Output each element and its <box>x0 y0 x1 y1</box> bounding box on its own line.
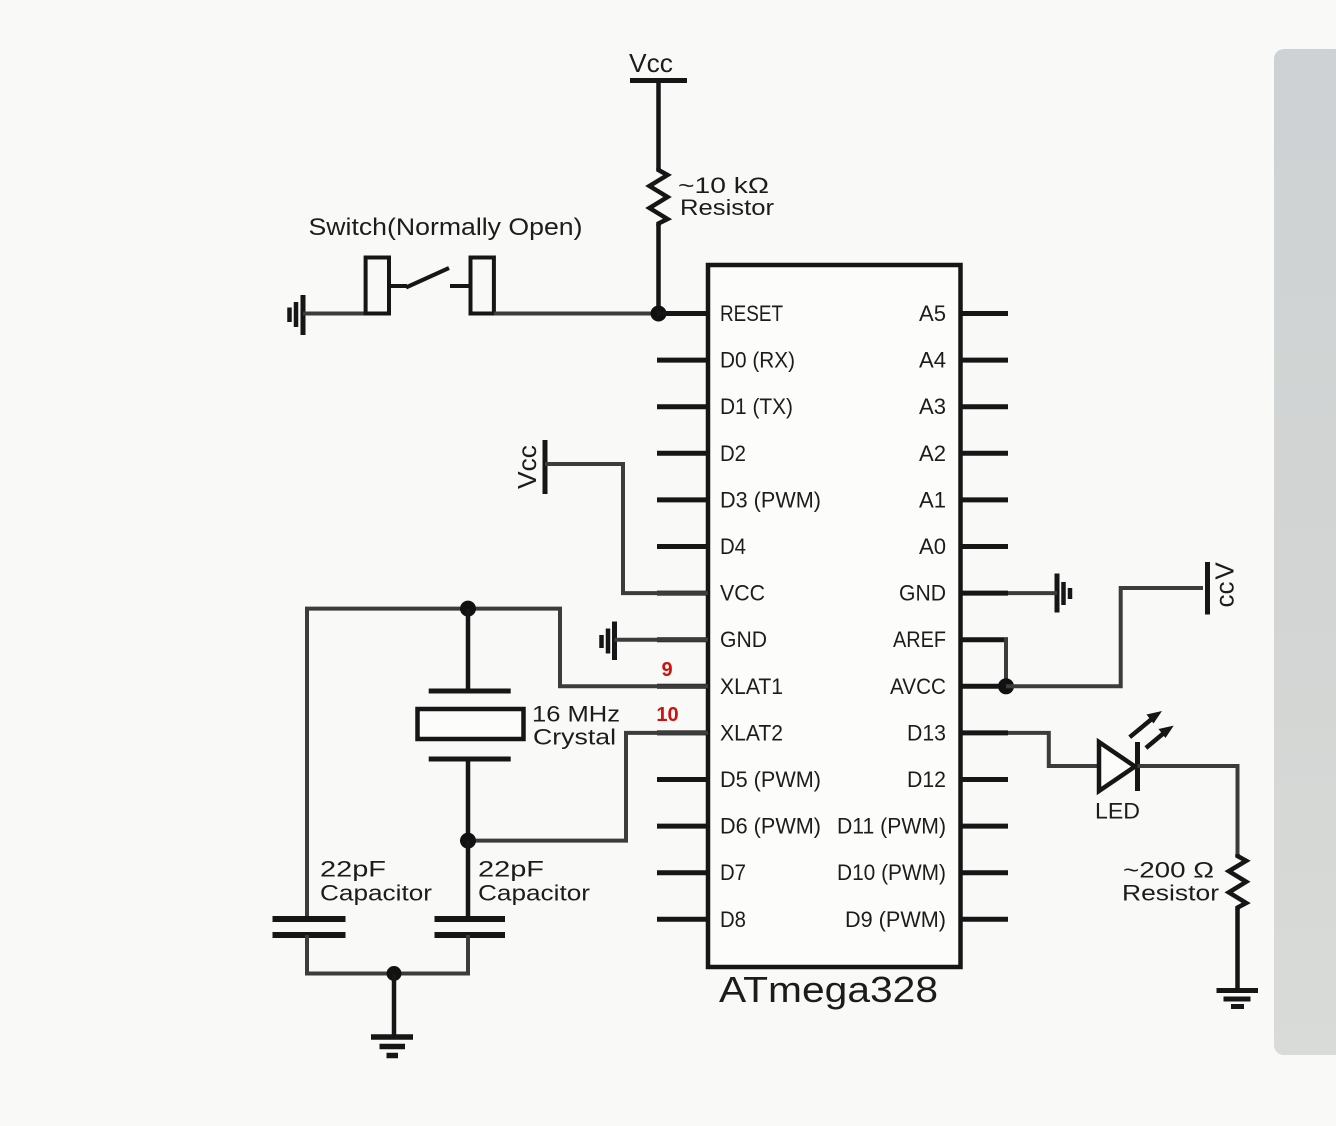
label R1 value ~10 kΩ Resistor <box>678 173 774 220</box>
ground G5 (LED resistor) <box>1217 991 1259 1007</box>
wire C2 to node GND <box>394 935 468 974</box>
resistor R2 <box>1229 854 1246 910</box>
label C2 22pF Capacitor <box>478 857 590 906</box>
pin D6 (PWM) (left 12) <box>657 814 821 839</box>
svg-text:~200 Ω: ~200 Ω <box>1123 858 1214 883</box>
svg-text:D13: D13 <box>907 720 946 745</box>
svg-text:D9 (PWM): D9 (PWM) <box>845 907 946 932</box>
resistor R1 <box>650 168 668 226</box>
pin D4 (left 6) <box>657 534 746 559</box>
svg-text:D0 (RX): D0 (RX) <box>720 348 795 373</box>
wire G2 to GND pin <box>615 638 709 642</box>
pin D13 (right 10) <box>907 720 1008 745</box>
svg-text:22pF: 22pF <box>320 857 386 882</box>
svg-text:A4: A4 <box>919 348 946 373</box>
pin D7 (left 13) <box>657 860 746 885</box>
junction node GND <box>387 966 402 981</box>
junction node AVCC <box>998 678 1014 694</box>
wire C1 to node GND <box>307 935 394 974</box>
svg-text:Crystal: Crystal <box>533 725 616 750</box>
ground G2 (GND pin left) <box>602 622 615 661</box>
svg-text:D11 (PWM): D11 (PWM) <box>837 814 946 839</box>
svg-text:Switch(Normally Open): Switch(Normally Open) <box>309 214 583 241</box>
wire D13 to LED <box>1008 733 1099 766</box>
wire node A to C1 <box>307 609 468 918</box>
svg-text:ATmega328: ATmega328 <box>719 969 938 1010</box>
ground G1 (switch) <box>290 295 304 335</box>
svg-text:D8: D8 <box>720 907 746 932</box>
wire node B to C2 <box>466 841 471 918</box>
pin D8 (left 14) <box>657 907 746 932</box>
junction node B <box>460 833 476 849</box>
svg-text:V: V <box>1210 562 1240 580</box>
junction node RESET <box>651 306 667 322</box>
pin D12 (right 11) <box>907 767 1008 792</box>
wire V1 to R1 <box>656 81 661 171</box>
svg-text:c: c <box>1210 595 1240 608</box>
pin A2 (right 4) <box>919 441 1008 466</box>
wire V2 to VCC pin <box>545 464 708 593</box>
pin D2 (left 4) <box>657 441 746 466</box>
svg-text:Vcc: Vcc <box>629 48 673 78</box>
wire AREF to node AVCC <box>1006 640 1008 687</box>
wire GND pin to G4 <box>1008 591 1057 595</box>
pin A1 (right 5) <box>919 487 1008 512</box>
ground G4 (GND pin right) <box>1057 574 1070 613</box>
pin D1 (TX) (left 3) <box>657 394 793 419</box>
wire node A to crystal Y1 <box>466 609 471 689</box>
svg-text:A3: A3 <box>919 394 946 419</box>
svg-text:Vcc: Vcc <box>512 445 542 489</box>
svg-text:c: c <box>1210 582 1240 595</box>
pin D5 (PWM) (left 11) <box>657 767 821 792</box>
svg-text:D5 (PWM): D5 (PWM) <box>720 767 821 792</box>
capacitor C1 22pF <box>273 919 346 935</box>
power symbol Vcc V1 (top) <box>629 48 687 81</box>
svg-text:AREF: AREF <box>893 627 946 652</box>
pin D10 (PWM) (right 13) <box>837 860 1008 885</box>
svg-text:22pF: 22pF <box>478 857 544 882</box>
LED D1 <box>1099 711 1174 791</box>
pin VCC (left 7) <box>657 581 765 606</box>
svg-text:D6 (PWM): D6 (PWM) <box>720 814 821 839</box>
svg-text:D12: D12 <box>907 767 946 792</box>
svg-text:D1 (TX): D1 (TX) <box>720 394 793 419</box>
pin D3 (PWM) (left 5) <box>657 487 821 512</box>
pin XLAT2 (left 10) <box>657 720 783 745</box>
pin RESET (left 1) <box>657 301 783 326</box>
switch S1 (pushbutton, normally open) <box>366 258 494 314</box>
label R2 value ~200 Ω Resistor <box>1122 858 1219 906</box>
pin AREF (right 8) <box>893 627 1008 652</box>
svg-text:9: 9 <box>661 659 672 681</box>
label Y1 16 MHz Crystal <box>532 702 620 750</box>
svg-text:LED: LED <box>1095 799 1140 824</box>
svg-text:D4: D4 <box>720 534 746 559</box>
wire R2 to G5 <box>1235 908 1240 990</box>
pin D0 (RX) (left 2) <box>657 348 795 373</box>
power symbol Vcc V2 (VCC pin) <box>512 440 545 494</box>
label C1 22pF Capacitor <box>320 857 432 906</box>
pin A0 (right 6) <box>919 534 1008 559</box>
svg-text:GND: GND <box>720 627 767 652</box>
svg-text:XLAT1: XLAT1 <box>720 674 783 699</box>
pin D11 (PWM) (right 12) <box>837 814 1008 839</box>
svg-text:A1: A1 <box>919 487 946 512</box>
svg-text:Resistor: Resistor <box>680 195 774 220</box>
svg-text:D10 (PWM): D10 (PWM) <box>837 860 946 885</box>
wire R1 to node RESET <box>656 224 661 314</box>
wire G1 to S1 <box>303 312 367 316</box>
IC U1 ATmega328 body <box>708 265 961 967</box>
pin A5 (right 1) <box>919 301 1008 326</box>
svg-text:VCC: VCC <box>720 581 765 606</box>
svg-text:AVCC: AVCC <box>890 674 946 699</box>
wire node AVCC to V3 <box>1006 588 1203 686</box>
crystal Y1 16 MHz <box>418 691 524 759</box>
svg-text:Capacitor: Capacitor <box>320 881 432 906</box>
pin GND (left 8) <box>657 627 767 652</box>
svg-text:XLAT2: XLAT2 <box>720 720 783 745</box>
wire Y1 to node B <box>466 759 471 841</box>
pin AVCC (right 9) <box>890 674 1008 699</box>
wire node B to XLAT2 <box>468 733 708 841</box>
svg-text:A5: A5 <box>919 301 946 326</box>
capacitor C2 22pF <box>435 919 506 935</box>
svg-text:Resistor: Resistor <box>1122 881 1219 906</box>
pin A3 (right 3) <box>919 394 1008 419</box>
junction node A <box>460 601 476 617</box>
svg-text:16 MHz: 16 MHz <box>532 702 620 727</box>
pin D9 (PWM) (right 14) <box>845 907 1008 932</box>
pin XLAT1 (left 9) <box>657 674 783 699</box>
svg-text:RESET: RESET <box>720 301 783 326</box>
svg-text:D2: D2 <box>720 441 746 466</box>
svg-text:Capacitor: Capacitor <box>478 881 590 906</box>
ground G3 (crystal node) <box>371 974 413 1056</box>
wire LED to R2 <box>1138 766 1238 856</box>
svg-text:D7: D7 <box>720 860 746 885</box>
svg-text:A2: A2 <box>919 441 946 466</box>
svg-text:A0: A0 <box>919 534 946 559</box>
wire S1 to node RESET <box>494 312 659 316</box>
svg-text:10: 10 <box>656 704 678 726</box>
wire XLAT1 to node A <box>468 609 708 687</box>
pin A4 (right 2) <box>919 348 1008 373</box>
wire node RESET to RESET pin <box>659 311 709 316</box>
svg-text:D3 (PWM): D3 (PWM) <box>720 487 821 512</box>
pin GND (right 7) <box>899 581 1008 606</box>
svg-text:GND: GND <box>899 581 946 606</box>
power symbol Vcc V3 (AVCC) <box>1208 562 1240 615</box>
